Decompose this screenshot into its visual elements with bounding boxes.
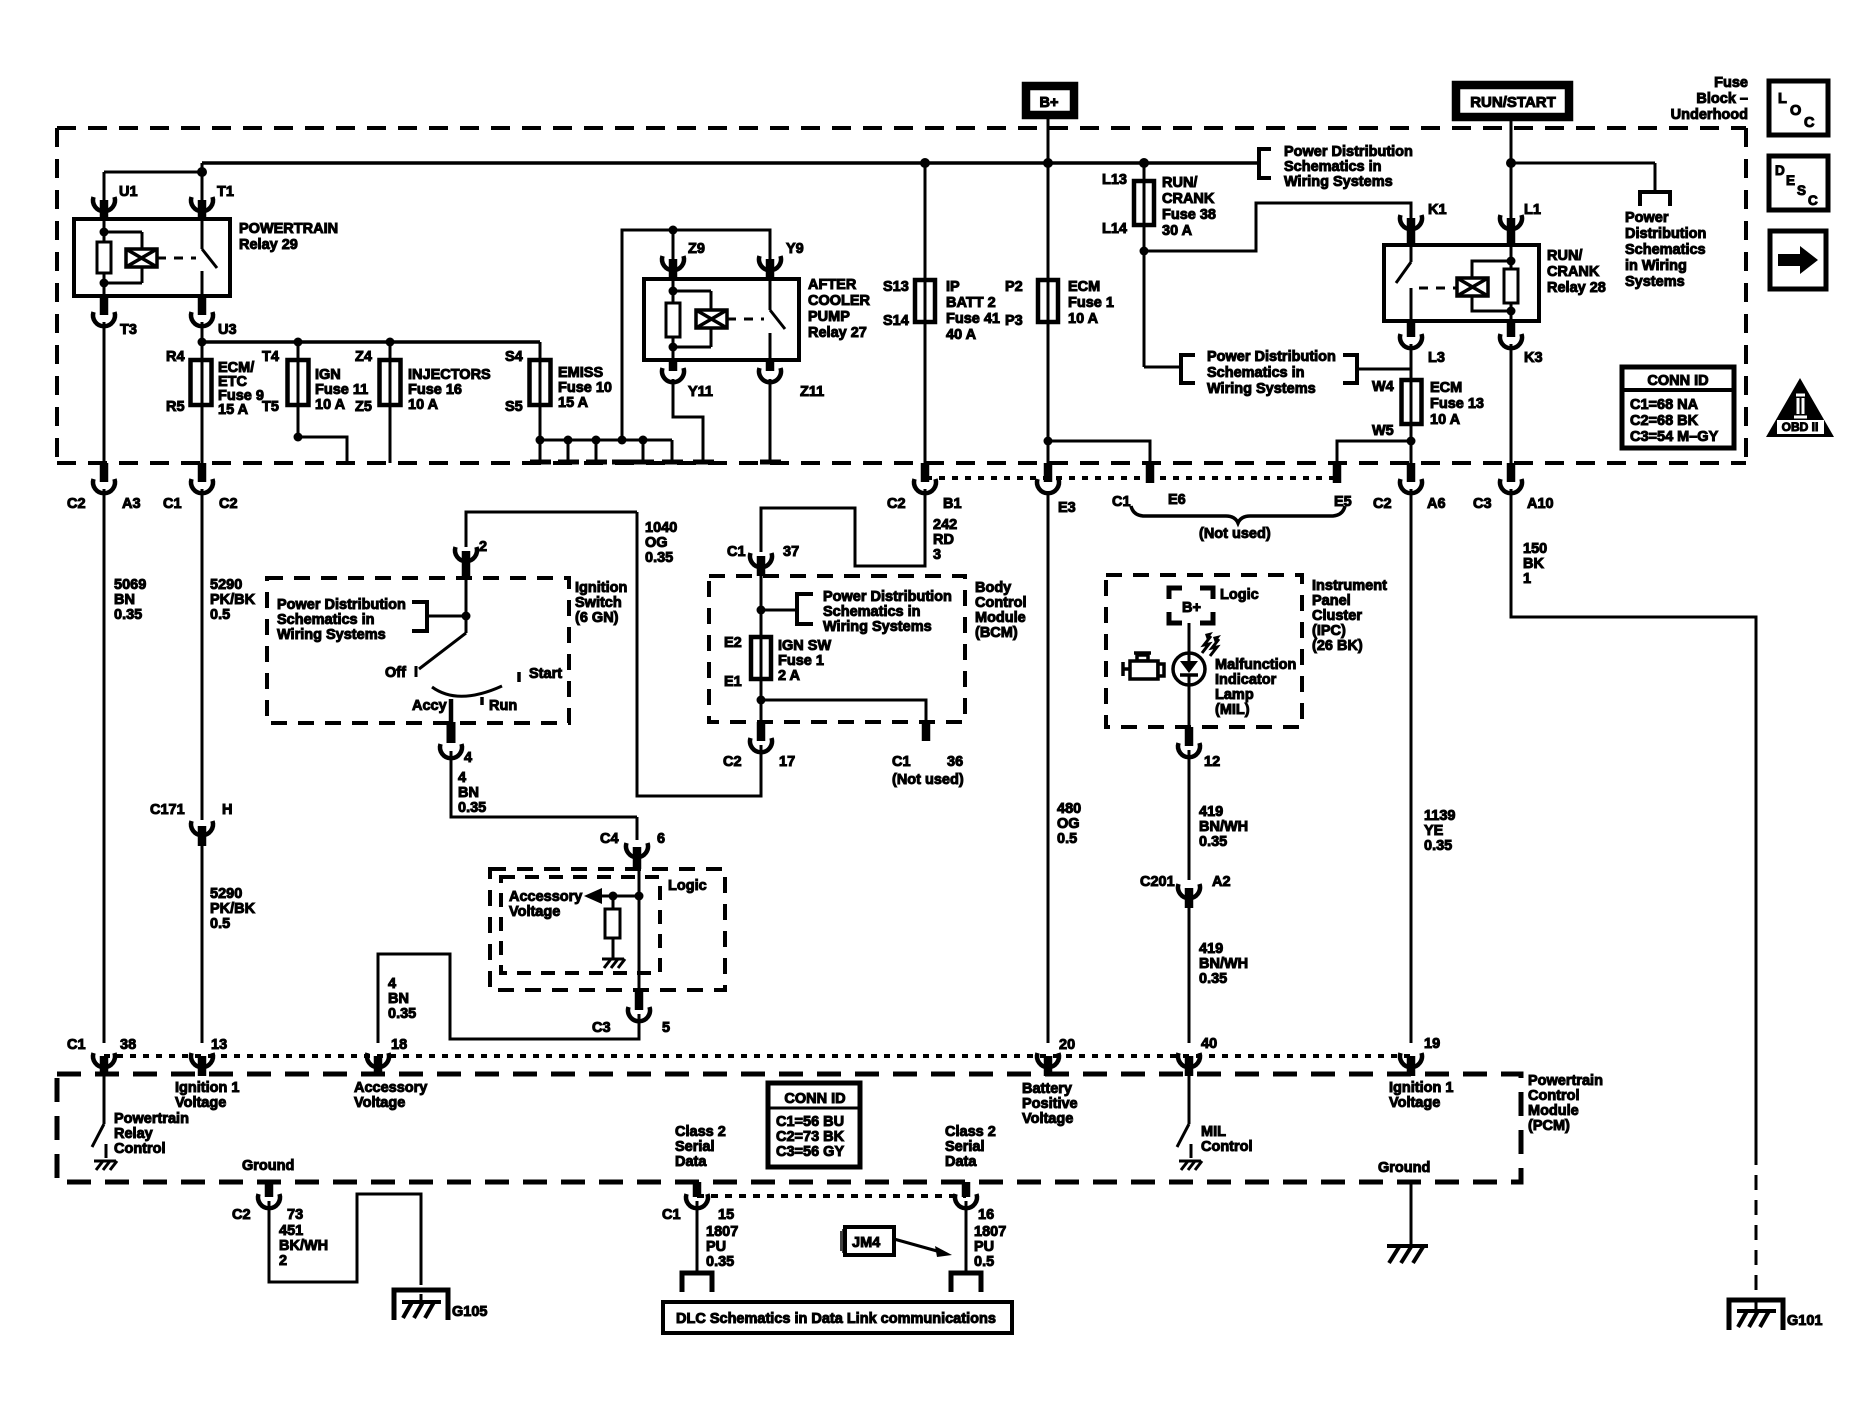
wire W5 down (1407, 437, 1416, 446)
svg-text:A6: A6 (1427, 496, 1446, 512)
svg-text:5: 5 (662, 1020, 670, 1036)
svg-text:5069: 5069 (114, 577, 146, 593)
svg-text:(26 BK): (26 BK) (1312, 638, 1363, 654)
svg-text:JM4: JM4 (852, 1235, 880, 1251)
wire 1040 OG (637, 512, 761, 796)
svg-text:YE: YE (1424, 823, 1444, 839)
wire 5290 PK/BK lower (201, 846, 204, 1043)
svg-text:Ignition 1: Ignition 1 (175, 1080, 239, 1096)
relay K27 box (644, 279, 799, 360)
svg-text:0.35: 0.35 (706, 1254, 734, 1270)
svg-text:Data: Data (945, 1154, 977, 1170)
svg-text:RUN/START: RUN/START (1470, 94, 1556, 111)
svg-text:IGN SW: IGN SW (778, 638, 831, 654)
wire 4 BN to pin 18 (378, 954, 639, 1043)
connector C3|5 (635, 990, 644, 1010)
svg-text:C1: C1 (662, 1207, 681, 1223)
svg-text:0.5: 0.5 (210, 916, 230, 932)
DLC pin fork left (682, 1273, 712, 1292)
wire 1807 PU 0.35 (696, 1201, 699, 1271)
svg-text:C3=56 GY: C3=56 GY (776, 1144, 844, 1160)
wire 150 BK to G101 (1511, 489, 1756, 1150)
svg-text:C2=73 BK: C2=73 BK (776, 1129, 845, 1145)
svg-text:Indicator: Indicator (1215, 672, 1277, 688)
svg-text:C2: C2 (219, 496, 238, 512)
JM4 arrow (894, 1239, 937, 1251)
svg-text:E2: E2 (724, 635, 742, 651)
relay 29 coil box (126, 249, 157, 267)
svg-text:L13: L13 (1102, 172, 1127, 188)
svg-text:Control: Control (1201, 1139, 1253, 1155)
svg-text:Ground: Ground (1378, 1160, 1430, 1176)
svg-text:Voltage: Voltage (509, 904, 560, 920)
svg-text:C1=56 BU: C1=56 BU (776, 1114, 844, 1130)
svg-text:BN: BN (458, 785, 479, 801)
svg-text:C1: C1 (67, 1037, 86, 1053)
connector K3 (1507, 321, 1516, 337)
svg-text:S: S (1797, 183, 1806, 198)
svg-text:4: 4 (388, 976, 396, 992)
svg-text:C2: C2 (232, 1207, 251, 1223)
svg-text:E3: E3 (1058, 500, 1076, 516)
label Fuse Block - Underhood (1671, 75, 1748, 123)
svg-text:T3: T3 (120, 322, 137, 338)
relay 29 coil circuit (103, 219, 106, 242)
wire 4 BN to C4 (451, 751, 637, 817)
svg-text:P2: P2 (1005, 279, 1023, 295)
svg-text:(Not used): (Not used) (892, 772, 964, 788)
connector U1 (93, 197, 115, 211)
icon arrow box (1770, 231, 1826, 289)
svg-text:40 A: 40 A (946, 327, 977, 343)
svg-text:419: 419 (1199, 941, 1223, 957)
wire E3 to pin 20 (1047, 494, 1050, 1043)
wire L14 to K1 (1140, 247, 1149, 256)
DLC dotted line (697, 1194, 966, 1198)
svg-text:Wiring Systems: Wiring Systems (277, 627, 386, 643)
svg-text:PU: PU (706, 1239, 726, 1255)
wire Z9/Y9 top link (622, 230, 770, 440)
svg-text:Wiring Systems: Wiring Systems (823, 619, 932, 635)
svg-text:Body: Body (975, 580, 1011, 596)
svg-text:5290: 5290 (210, 577, 242, 593)
svg-text:Serial: Serial (675, 1139, 715, 1155)
note bracket power distribution W4 right (1343, 355, 1357, 383)
connector C1|38 (93, 1053, 115, 1067)
svg-text:Y11: Y11 (688, 384, 713, 400)
svg-text:0.5: 0.5 (974, 1254, 994, 1270)
svg-text:Fuse 1: Fuse 1 (1068, 295, 1114, 311)
svg-text:Relay 28: Relay 28 (1547, 280, 1606, 296)
svg-text:C1: C1 (727, 544, 746, 560)
svg-text:10 A: 10 A (1430, 412, 1461, 428)
svg-text:480: 480 (1057, 801, 1081, 817)
ground G105 (394, 1290, 448, 1320)
svg-text:Voltage: Voltage (1389, 1095, 1440, 1111)
ignition rotary arc (432, 686, 502, 696)
svg-text:AFTER: AFTER (808, 277, 857, 293)
svg-text:C2: C2 (723, 754, 742, 770)
connector Y9 (759, 256, 781, 270)
relay 28 switch (1410, 245, 1413, 262)
svg-text:Fuse 16: Fuse 16 (408, 382, 462, 398)
relay 28 coil box (1457, 278, 1488, 296)
node junction B+ bus (1043, 158, 1053, 168)
svg-text:Accessory: Accessory (509, 889, 582, 905)
connector U3 (198, 296, 207, 315)
svg-text:Ignition 1: Ignition 1 (1389, 1080, 1453, 1096)
svg-text:(MIL): (MIL) (1215, 702, 1250, 718)
svg-text:Class 2: Class 2 (675, 1124, 726, 1140)
svg-text:A10: A10 (1527, 496, 1554, 512)
comb teeth (540, 440, 672, 463)
svg-text:C2: C2 (887, 496, 906, 512)
svg-text:RUN/: RUN/ (1547, 248, 1582, 264)
svg-text:Control: Control (975, 595, 1027, 611)
svg-text:A2: A2 (1212, 874, 1231, 890)
connector E5 stub (1333, 463, 1342, 483)
BCM fuse box (709, 576, 965, 722)
wire L3 to W4 (1410, 344, 1413, 466)
fuse EMISS Fuse 10 (539, 342, 542, 440)
svg-text:BN/WH: BN/WH (1199, 819, 1248, 835)
node junction RUN/CRANK fuse (1139, 158, 1149, 168)
svg-text:U3: U3 (218, 322, 237, 338)
svg-text:15 A: 15 A (218, 402, 249, 418)
svg-text:12: 12 (1204, 754, 1220, 770)
connector C2|B1 (921, 463, 930, 482)
svg-text:Fuse 13: Fuse 13 (1430, 396, 1484, 412)
svg-text:Logic: Logic (1220, 587, 1259, 603)
connector 16 (962, 1182, 971, 1197)
node junction E6 branch (1044, 437, 1053, 446)
svg-text:PK/BK: PK/BK (210, 901, 256, 917)
svg-text:C: C (1808, 193, 1818, 208)
PCM pin labels (175, 1080, 239, 1111)
svg-text:S13: S13 (883, 279, 909, 295)
power node B+ box (1026, 86, 1074, 115)
icon OBD II triangle (1766, 378, 1834, 437)
svg-text:19: 19 (1424, 1036, 1440, 1052)
BCM logic box inner (501, 877, 660, 973)
svg-text:Malfunction: Malfunction (1215, 657, 1296, 673)
svg-text:Battery: Battery (1022, 1081, 1072, 1097)
svg-text:2 A: 2 A (778, 668, 801, 684)
svg-text:COOLER: COOLER (808, 293, 871, 309)
svg-text:Fuse 11: Fuse 11 (315, 382, 368, 398)
svg-text:Power: Power (1625, 210, 1669, 226)
relay 27 resistor (666, 303, 680, 337)
relay K29 box (74, 219, 230, 296)
note bracket power distribution L14 left (1181, 355, 1195, 383)
svg-text:B+: B+ (1182, 600, 1201, 616)
wire T5 jog (298, 437, 347, 463)
relay 27 switch (769, 279, 772, 310)
svg-text:6: 6 (657, 831, 665, 847)
connector T1 (191, 197, 213, 211)
svg-text:Start: Start (529, 666, 562, 682)
svg-text:1807: 1807 (974, 1224, 1006, 1240)
svg-text:419: 419 (1199, 804, 1223, 820)
connector 19 (1400, 1053, 1422, 1067)
svg-text:1040: 1040 (645, 520, 677, 536)
wire fuse bus (202, 340, 540, 344)
svg-text:Schematics: Schematics (1625, 242, 1706, 258)
svg-text:Relay 29: Relay 29 (239, 237, 298, 253)
wire S5 comb (540, 439, 672, 442)
svg-text:10 A: 10 A (315, 397, 346, 413)
connector C2|73 (265, 1182, 274, 1197)
table CONN ID bottom (768, 1083, 860, 1167)
svg-text:(Not used): (Not used) (1199, 526, 1271, 542)
svg-text:S5: S5 (505, 399, 523, 415)
wire 419 BN/WH lower (1188, 908, 1191, 1043)
svg-text:Power Distribution: Power Distribution (1207, 349, 1336, 365)
svg-text:C3: C3 (592, 1020, 611, 1036)
svg-text:C201: C201 (1140, 874, 1175, 890)
svg-text:T1: T1 (217, 184, 234, 200)
svg-text:U1: U1 (119, 184, 138, 200)
svg-text:PU: PU (974, 1239, 994, 1255)
svg-text:1: 1 (1523, 571, 1531, 587)
DLC pin fork right (951, 1273, 981, 1292)
svg-text:Control: Control (114, 1141, 166, 1157)
svg-text:10 A: 10 A (1068, 311, 1099, 327)
svg-text:DLC Schematics in Data Link co: DLC Schematics in Data Link communicatio… (676, 1311, 996, 1327)
svg-text:C2: C2 (67, 496, 86, 512)
svg-text:Fuse 41: Fuse 41 (946, 311, 1000, 327)
svg-text:Power Distribution: Power Distribution (823, 589, 952, 605)
icon DESC box (1769, 156, 1828, 210)
svg-text:0.35: 0.35 (1199, 971, 1227, 987)
svg-text:15: 15 (718, 1207, 734, 1223)
svg-text:E6: E6 (1168, 492, 1186, 508)
svg-text:B1: B1 (943, 496, 962, 512)
svg-text:10 A: 10 A (408, 397, 439, 413)
svg-text:W4: W4 (1372, 379, 1394, 395)
svg-text:2: 2 (479, 539, 487, 555)
svg-text:18: 18 (391, 1037, 407, 1053)
svg-text:OG: OG (1057, 816, 1080, 832)
wire B1 to C1|37 (761, 489, 925, 566)
svg-text:Fuse 38: Fuse 38 (1162, 207, 1216, 223)
svg-text:73: 73 (287, 1207, 303, 1223)
connector 13 (191, 1053, 213, 1067)
wire E5 branch (1337, 441, 1411, 463)
LED lightning arrows (1202, 636, 1219, 656)
svg-text:(PCM): (PCM) (1528, 1118, 1570, 1134)
svg-text:CONN ID: CONN ID (784, 1091, 845, 1107)
connector 40 (1178, 1053, 1200, 1067)
svg-text:3: 3 (933, 547, 941, 563)
note staple power distribution run/start (1640, 192, 1670, 206)
svg-text:C1: C1 (892, 754, 911, 770)
svg-text:S14: S14 (883, 313, 909, 329)
svg-text:E1: E1 (724, 674, 742, 690)
svg-text:G105: G105 (452, 1304, 487, 1320)
wire T1 down (201, 163, 204, 200)
svg-text:Ground: Ground (242, 1158, 294, 1174)
svg-text:Ignition: Ignition (575, 580, 627, 596)
svg-text:Wiring Systems: Wiring Systems (1284, 174, 1393, 190)
svg-text:C3=54 M–GY: C3=54 M–GY (1630, 429, 1719, 445)
relay 27 coil box (696, 310, 727, 328)
wire K3 down to edge (1510, 344, 1513, 466)
connector row dotted line (926, 476, 1337, 480)
connector C2|A3 (100, 463, 109, 482)
ignition switch blade (419, 633, 466, 669)
wire main bus (202, 161, 1258, 165)
svg-text:Power Distribution: Power Distribution (277, 597, 406, 613)
svg-text:O: O (1790, 103, 1801, 119)
IPC dashed box (1106, 575, 1302, 727)
svg-text:Serial: Serial (945, 1139, 985, 1155)
connector 18 (367, 1053, 389, 1067)
ignition output 4 (449, 699, 454, 726)
svg-text:40: 40 (1201, 1036, 1217, 1052)
svg-text:G101: G101 (1787, 1313, 1822, 1329)
connector E6 stub (1146, 463, 1155, 483)
svg-text:C171: C171 (150, 802, 185, 818)
wire 1139 YE (1410, 489, 1413, 1043)
svg-text:C2=68 BK: C2=68 BK (1630, 413, 1699, 429)
connector E3 (1044, 463, 1053, 482)
svg-text:Underhood: Underhood (1671, 107, 1748, 123)
wire ignition feed 2 (466, 512, 637, 547)
svg-text:H: H (222, 802, 232, 818)
svg-text:in Wiring: in Wiring (1625, 258, 1687, 274)
svg-text:K3: K3 (1524, 350, 1543, 366)
relay 29 switch (201, 219, 204, 249)
note bracket power distribution ignition (277, 597, 406, 643)
svg-text:17: 17 (779, 754, 795, 770)
wire BCM internal vertical (638, 869, 641, 990)
relay 29 resistor (97, 242, 111, 273)
connector 20 (1037, 1053, 1059, 1067)
svg-text:Schematics in: Schematics in (277, 612, 375, 628)
svg-text:Z9: Z9 (688, 241, 705, 257)
svg-text:2: 2 (279, 1253, 287, 1269)
svg-text:POWERTRAIN: POWERTRAIN (239, 221, 338, 237)
PCM dashed box (57, 1074, 1521, 1182)
svg-text:Relay 27: Relay 27 (808, 325, 867, 341)
svg-text:S4: S4 (505, 349, 523, 365)
svg-text:CRANK: CRANK (1162, 191, 1215, 207)
svg-text:RUN/: RUN/ (1162, 175, 1197, 191)
svg-text:Data: Data (675, 1154, 707, 1170)
svg-text:ECM: ECM (1068, 279, 1100, 295)
svg-text:L3: L3 (1428, 350, 1445, 366)
wire E6 branch (1048, 441, 1150, 463)
svg-text:37: 37 (783, 544, 799, 560)
svg-text:C4: C4 (600, 831, 619, 847)
svg-text:Off: Off (385, 665, 406, 681)
svg-text:0.35: 0.35 (1424, 838, 1452, 854)
svg-text:0.35: 0.35 (645, 550, 673, 566)
svg-text:Logic: Logic (668, 878, 707, 894)
svg-text:Positive: Positive (1022, 1096, 1078, 1112)
relay 28 resistor (1504, 269, 1518, 303)
svg-text:Wiring Systems: Wiring Systems (1207, 381, 1316, 397)
connector C1|15 (693, 1182, 702, 1197)
connector 12 (1185, 727, 1194, 746)
ignition switch dashed box (267, 578, 569, 723)
connector 2 (455, 547, 477, 561)
svg-text:15 A: 15 A (558, 395, 589, 411)
wire RUN/START branch right (1511, 162, 1655, 165)
svg-text:Y9: Y9 (786, 241, 804, 257)
svg-text:C3: C3 (1473, 496, 1492, 512)
svg-text:BK/WH: BK/WH (279, 1238, 328, 1254)
svg-text:ECM: ECM (1430, 380, 1462, 396)
svg-text:P3: P3 (1005, 313, 1023, 329)
svg-text:16: 16 (978, 1207, 994, 1223)
svg-text:Schematics in: Schematics in (1207, 365, 1305, 381)
svg-text:Z5: Z5 (355, 399, 372, 415)
svg-text:Relay: Relay (114, 1126, 153, 1142)
node junction T1/U1 (197, 167, 207, 177)
svg-text:Schematics in: Schematics in (823, 604, 921, 620)
wire 451 BK/WH to G105 (269, 1194, 421, 1282)
icon LOC box (1769, 81, 1828, 135)
wire U1 branch (104, 171, 202, 174)
svg-text:Powertrain: Powertrain (114, 1111, 189, 1127)
fuse IGN Fuse 11 (297, 342, 300, 437)
svg-text:PUMP: PUMP (808, 309, 850, 325)
BCM resistor (612, 896, 615, 909)
wire T3 down to edge (103, 322, 106, 466)
note bracket power distribution BCM (823, 589, 952, 635)
svg-text:BN: BN (388, 991, 409, 1007)
svg-text:Z11: Z11 (800, 384, 824, 400)
svg-text:L1: L1 (1524, 202, 1541, 218)
svg-text:0.5: 0.5 (210, 607, 230, 623)
svg-text:Powertrain: Powertrain (1528, 1073, 1603, 1089)
PCM internal relay control switch (103, 1076, 106, 1124)
svg-text:4: 4 (458, 770, 466, 786)
svg-text:PK/BK: PK/BK (210, 592, 256, 608)
svg-text:Cluster: Cluster (1312, 608, 1362, 624)
connector C1|36 stub (922, 722, 931, 741)
svg-text:0.35: 0.35 (114, 607, 142, 623)
connector L1 (1500, 215, 1522, 229)
wire 5290 PK/BK upper (201, 489, 204, 820)
wire B+ to bus (1047, 115, 1050, 466)
svg-text:38: 38 (120, 1037, 136, 1053)
svg-text:L: L (1778, 91, 1787, 107)
relay 27 coil circuit (672, 279, 675, 303)
svg-text:C: C (1804, 115, 1815, 131)
svg-text:Distribution: Distribution (1625, 226, 1706, 242)
svg-text:(6 GN): (6 GN) (575, 610, 619, 626)
svg-text:L14: L14 (1102, 221, 1127, 237)
svg-text:CRANK: CRANK (1547, 264, 1600, 280)
wire 37 to fuse (760, 576, 763, 722)
svg-text:(IPC): (IPC) (1312, 623, 1346, 639)
svg-text:Accy: Accy (412, 698, 447, 714)
svg-text:RD: RD (933, 532, 954, 548)
wire IP BATT2 down (924, 163, 927, 466)
svg-text:242: 242 (933, 517, 957, 533)
connector Z9 (662, 256, 684, 270)
svg-text:Schematics in: Schematics in (1284, 159, 1382, 175)
wire U3 down (201, 322, 204, 466)
relay 28 dash link (1419, 287, 1456, 290)
JM4 box (845, 1227, 894, 1255)
svg-text:BN/WH: BN/WH (1199, 956, 1248, 972)
B+ logic dashed box (1169, 588, 1213, 623)
wire Z11 to edge (769, 379, 772, 463)
